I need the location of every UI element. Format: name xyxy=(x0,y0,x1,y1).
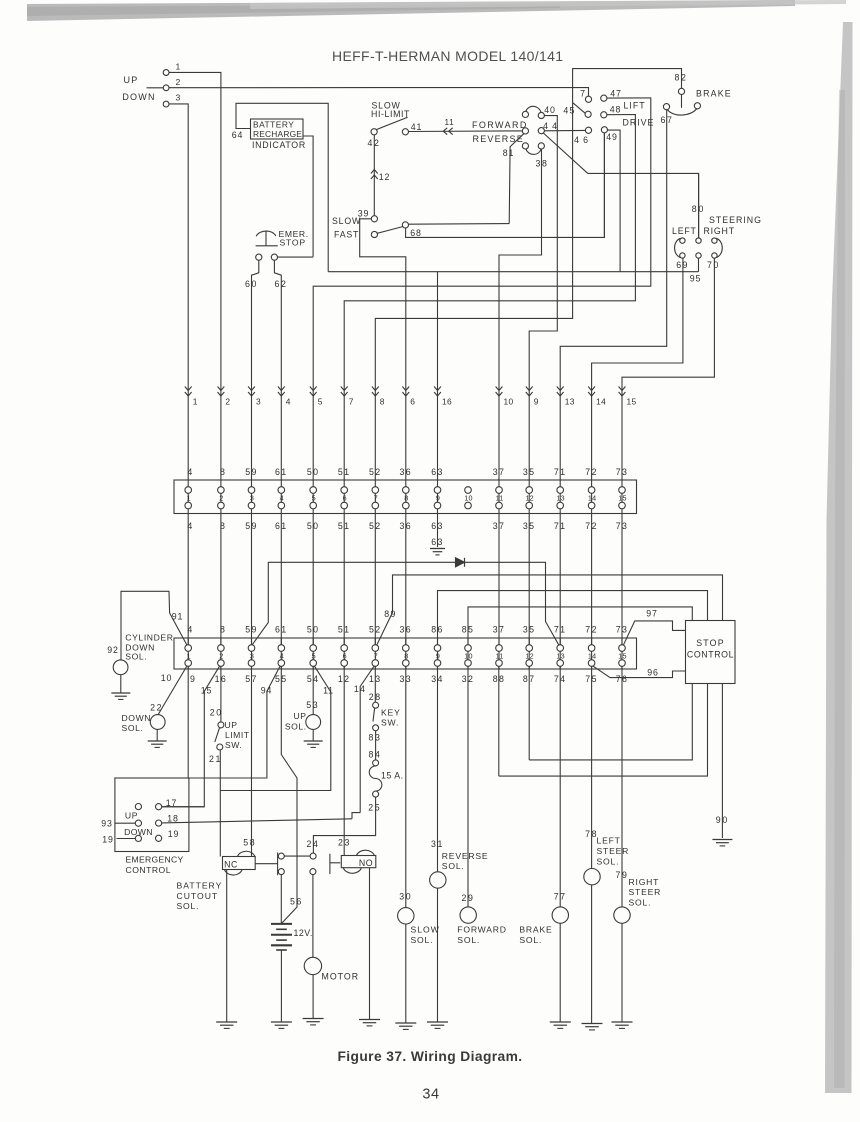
wire left pair to battery xyxy=(280,875,282,924)
svg-text:22: 22 xyxy=(150,703,163,713)
ground below up sol xyxy=(312,729,314,740)
arrow wire 15 into strip1 col15 xyxy=(619,387,626,391)
wire 18/93 row xyxy=(115,822,135,824)
svg-text:13: 13 xyxy=(565,397,575,407)
TB2 pin 7 terminals xyxy=(374,638,376,669)
steering right arc xyxy=(716,238,722,257)
svg-text:SOL.: SOL. xyxy=(629,898,652,908)
svg-text:18: 18 xyxy=(167,814,178,824)
TB2 pin 6 terminals xyxy=(343,638,345,669)
svg-text:71: 71 xyxy=(554,625,567,635)
svg-text:70: 70 xyxy=(707,260,720,270)
TB1 pin 13 terminals xyxy=(559,480,561,514)
wire from stop control to TB2 pin12 / 87 xyxy=(529,684,692,760)
terminal fast xyxy=(371,231,377,237)
left steer solenoid xyxy=(584,869,600,885)
wire from 68 to node 81 xyxy=(409,223,510,226)
svg-text:REVERSE: REVERSE xyxy=(442,851,489,861)
svg-text:90: 90 xyxy=(716,815,729,825)
svg-text:UP: UP xyxy=(124,75,139,85)
svg-text:56: 56 xyxy=(290,897,303,907)
svg-text:10: 10 xyxy=(504,397,514,407)
svg-text:10: 10 xyxy=(464,494,472,503)
TB1 pin 11 terminals xyxy=(498,480,500,514)
terminal 60 xyxy=(256,254,262,260)
battery 12V xyxy=(271,923,292,925)
wire 14 diagonal from TB2 pin7 xyxy=(360,666,374,812)
switch blade 81 and wire to node 68 xyxy=(509,133,524,223)
wire 2 from terminal 2 to switch 7 xyxy=(147,87,164,89)
ground below slow sol xyxy=(395,1022,416,1024)
svg-text:83: 83 xyxy=(369,732,382,742)
wire 80 vertical xyxy=(698,173,700,237)
svg-text:41: 41 xyxy=(411,122,422,132)
terminals 18 row xyxy=(135,820,141,826)
wire 49 to node 68 xyxy=(603,133,605,238)
svg-text:FORWARD: FORWARD xyxy=(472,120,528,130)
contact 24 left pair xyxy=(278,853,284,859)
terminal 81 xyxy=(522,143,528,149)
emergency stop symbol xyxy=(256,231,276,236)
svg-text:7: 7 xyxy=(374,651,378,660)
svg-text:2: 2 xyxy=(219,651,223,660)
TB2 pin 9 terminals xyxy=(437,638,439,669)
TB1 pin 7 terminals xyxy=(374,480,376,514)
svg-text:73: 73 xyxy=(616,625,629,635)
svg-text:15: 15 xyxy=(201,685,212,695)
TB2 pin 10 terminals xyxy=(467,638,469,669)
svg-text:64: 64 xyxy=(232,130,243,140)
steering terminals top row xyxy=(680,238,685,243)
svg-text:5: 5 xyxy=(312,494,316,503)
svg-text:15: 15 xyxy=(627,397,637,407)
svg-text:58: 58 xyxy=(243,837,256,847)
svg-text:28: 28 xyxy=(369,692,382,702)
terminal 3 xyxy=(163,101,169,107)
wire 62 to indicator node xyxy=(278,256,314,258)
svg-text:4: 4 xyxy=(187,625,193,635)
wire 94 from TB2 pin4 to emergency control xyxy=(189,666,280,778)
terminal 41 xyxy=(402,129,408,135)
terminal 40 xyxy=(538,112,544,118)
terminal 11 common xyxy=(522,128,528,134)
svg-text:MOTOR: MOTOR xyxy=(322,972,360,982)
wire 44 to 46 xyxy=(544,129,585,131)
svg-text:25: 25 xyxy=(368,803,381,813)
wire from TB1 pin 7 to TB2 pin 7 xyxy=(374,514,376,645)
wire 33 from TB2 pin8 to slow sol xyxy=(405,666,407,1022)
svg-text:SOL.: SOL. xyxy=(442,861,465,871)
svg-text:DOWN: DOWN xyxy=(122,92,155,102)
svg-text:1: 1 xyxy=(187,651,191,660)
svg-text:14: 14 xyxy=(354,684,367,694)
svg-text:5: 5 xyxy=(312,651,316,660)
svg-text:15: 15 xyxy=(618,494,626,503)
svg-text:5: 5 xyxy=(318,397,323,407)
svg-text:DRIVE: DRIVE xyxy=(623,118,655,128)
svg-text:77: 77 xyxy=(554,892,567,902)
svg-text:SLOW: SLOW xyxy=(411,924,440,934)
wire from TB1 pin 2 to TB2 pin 2 xyxy=(220,514,222,645)
svg-text:LEFT: LEFT xyxy=(597,836,621,846)
svg-text:STEER: STEER xyxy=(629,887,662,897)
ground below left steer sol xyxy=(582,1023,603,1025)
wire 57 from TB2 pin3 to NC relay coil xyxy=(251,666,253,856)
ground 90 xyxy=(712,839,732,841)
svg-text:37: 37 xyxy=(493,625,506,635)
contact bar 24 left xyxy=(277,853,279,876)
arrow wire 13 into strip1 col13 xyxy=(557,387,564,391)
svg-text:SLOW: SLOW xyxy=(332,216,361,226)
svg-text:STEERING: STEERING xyxy=(709,215,762,225)
wire 85 from TB2 pin10 to stop control xyxy=(468,607,692,645)
contact 24 right pair xyxy=(310,853,316,859)
svg-text:9: 9 xyxy=(436,494,440,503)
svg-text:34: 34 xyxy=(422,1087,439,1103)
svg-text:2: 2 xyxy=(225,397,230,407)
svg-text:SOL.: SOL. xyxy=(122,723,144,733)
svg-text:13: 13 xyxy=(556,494,564,503)
wire 76 from TB2 pin15 to right steer sol xyxy=(621,666,623,1021)
TB2 pin 8 terminals xyxy=(405,638,407,669)
svg-text:50: 50 xyxy=(307,625,320,635)
stem from 82 xyxy=(681,94,683,107)
wire 45 pivot to strip1 col7 xyxy=(375,103,572,480)
svg-text:NC: NC xyxy=(224,859,238,869)
up limit switch xyxy=(218,722,224,728)
arrow wire 1 into strip1 col1 xyxy=(185,387,192,391)
svg-text:61: 61 xyxy=(275,467,288,477)
TB1 pin 14 terminals xyxy=(591,480,593,514)
slow solenoid xyxy=(398,908,414,924)
svg-text:53: 53 xyxy=(306,700,319,710)
svg-text:13: 13 xyxy=(556,651,564,660)
arrow wire 10 into strip1 col11 xyxy=(496,387,503,391)
wire 95 stub to node 63 xyxy=(698,258,700,272)
svg-text:19: 19 xyxy=(102,835,113,845)
svg-text:71: 71 xyxy=(554,467,567,477)
svg-text:51: 51 xyxy=(338,467,351,477)
svg-text:LEFT: LEFT xyxy=(672,226,697,236)
wire from TB1 pin 6 to TB2 pin 6 xyxy=(343,514,345,645)
svg-text:3: 3 xyxy=(256,397,261,407)
svg-text:1: 1 xyxy=(176,62,182,72)
svg-text:INDICATOR: INDICATOR xyxy=(252,140,306,150)
terminal 47 xyxy=(601,95,607,101)
right steer solenoid xyxy=(614,907,630,923)
terminal 42 xyxy=(371,129,377,135)
svg-text:4 4: 4 4 xyxy=(543,121,558,131)
wire from 39 to strip1 col8 xyxy=(360,219,406,480)
arrow wire 6 into strip1 col8 xyxy=(402,387,409,391)
wire NO to ground xyxy=(369,868,371,1019)
wire 18 jog to wire 14 xyxy=(352,813,360,819)
svg-text:61: 61 xyxy=(275,625,288,635)
svg-text:SOL.: SOL. xyxy=(519,935,542,945)
terminal 48 xyxy=(601,112,607,118)
ground below NC xyxy=(216,1021,237,1023)
TB1 pin 4 terminals xyxy=(280,480,282,514)
forward solenoid xyxy=(460,907,476,923)
ground below down sol xyxy=(156,729,158,740)
svg-text:SOL.: SOL. xyxy=(177,901,200,911)
wire 1 from terminal 1 to strip1 col2 xyxy=(169,72,221,480)
terminal 38 xyxy=(538,143,544,149)
svg-text:7: 7 xyxy=(580,88,586,98)
arc 40-45 top xyxy=(526,106,541,112)
svg-text:3: 3 xyxy=(176,93,182,103)
wire 55 from TB2 pin4 to battery xyxy=(281,666,297,923)
svg-text:82: 82 xyxy=(675,73,688,83)
svg-text:11: 11 xyxy=(444,118,454,127)
svg-text:94: 94 xyxy=(261,685,272,695)
down solenoid xyxy=(150,715,165,730)
wire 10 diagonal to down sol xyxy=(158,666,187,715)
terminal 39 xyxy=(371,216,377,222)
svg-text:SOL.: SOL. xyxy=(125,652,147,662)
svg-text:BRAKE: BRAKE xyxy=(696,88,732,98)
svg-text:8: 8 xyxy=(404,494,408,503)
wire battery to ground xyxy=(280,950,282,1022)
TB1 pin 12 terminals xyxy=(528,480,530,514)
svg-text:SOL.: SOL. xyxy=(457,935,480,945)
svg-text:23: 23 xyxy=(338,837,351,847)
terminal strip TB1 xyxy=(174,480,637,514)
svg-text:85: 85 xyxy=(462,625,475,635)
TB2 pin 4 terminals xyxy=(280,638,282,669)
chevron arrow 12 xyxy=(371,170,378,174)
wire from TB1 pin 4 to TB2 pin 4 xyxy=(280,514,282,645)
svg-text:93: 93 xyxy=(101,818,112,828)
up solenoid xyxy=(306,715,321,730)
svg-text:12: 12 xyxy=(525,651,533,660)
svg-text:1: 1 xyxy=(187,494,191,503)
svg-text:52: 52 xyxy=(369,467,382,477)
svg-text:52: 52 xyxy=(369,625,382,635)
wire 16 from TB2 pin2 to up limit switch xyxy=(220,666,222,721)
wire 3 from terminal 3 to strip1 col1 xyxy=(169,104,188,480)
svg-text:10: 10 xyxy=(161,673,172,683)
NO relay fixed contact bracket xyxy=(329,854,331,874)
svg-text:81: 81 xyxy=(503,148,514,158)
wire from TB1 pin 14 to TB2 pin 14 xyxy=(591,514,593,645)
TB1 pin 2 terminals xyxy=(220,480,222,514)
TB2 pin 13 terminals xyxy=(559,638,561,669)
svg-text:86: 86 xyxy=(431,625,444,635)
terminal 68 xyxy=(402,222,408,228)
svg-text:24: 24 xyxy=(307,839,320,849)
wire with diode from TB2 pin3 to TB2 pin13 xyxy=(252,562,559,645)
cylinder down solenoid xyxy=(113,660,128,675)
stop control box xyxy=(686,621,736,684)
wire 47 to strip1 col5 xyxy=(313,98,651,480)
wire 74 from TB2 pin13 to brake sol xyxy=(559,666,561,1021)
svg-text:40: 40 xyxy=(544,105,555,115)
wire from TB1 pin 11 to TB2 pin 11 xyxy=(498,514,500,645)
svg-text:3: 3 xyxy=(250,651,254,660)
svg-text:HEFF-T-HERMAN MODEL 140/141: HEFF-T-HERMAN MODEL 140/141 xyxy=(332,48,563,64)
svg-text:STOP: STOP xyxy=(696,638,725,648)
svg-text:29: 29 xyxy=(462,893,475,903)
svg-text:RIGHT: RIGHT xyxy=(704,226,735,236)
arrow wire 4 into strip1 col4 xyxy=(278,387,285,391)
terminal strip TB2 xyxy=(174,638,637,669)
wire motor to ground xyxy=(312,975,314,1018)
svg-text:7: 7 xyxy=(374,494,378,503)
svg-text:15 A.: 15 A. xyxy=(381,771,404,781)
wire 25 to contact 24 xyxy=(313,797,375,853)
svg-text:1: 1 xyxy=(193,397,198,407)
terminal 7 xyxy=(585,96,591,102)
arrow wire 16 into strip1 col9 xyxy=(434,387,441,391)
TB2 pin 3 terminals xyxy=(251,638,253,669)
svg-text:38: 38 xyxy=(536,159,549,169)
svg-text:BATTERY: BATTERY xyxy=(177,881,223,891)
terminal 82 xyxy=(678,88,684,94)
svg-text:51: 51 xyxy=(338,625,351,635)
wire 88 below TB2 pin11 xyxy=(498,666,500,776)
wire from TB1 pin 13 to TB2 pin 13 xyxy=(559,514,561,645)
svg-text:STEER: STEER xyxy=(597,846,630,856)
diode xyxy=(456,558,465,567)
reverse solenoid xyxy=(430,872,446,888)
terminals 17 row xyxy=(135,804,141,810)
key switch xyxy=(373,702,379,708)
ground below cylinder down sol xyxy=(120,675,122,693)
svg-text:80: 80 xyxy=(692,204,705,214)
TB1 pin 9 terminals xyxy=(437,480,439,514)
fuse 15A xyxy=(373,760,379,766)
wire 48 to strip1 col6 xyxy=(344,115,635,481)
terminal 44 xyxy=(538,128,544,134)
scanner top edge band xyxy=(27,0,795,21)
svg-text:37: 37 xyxy=(493,467,506,477)
wire 9 from TB2 pin1 to emergency control xyxy=(187,666,189,778)
wire 21 down to NC relay xyxy=(219,750,221,857)
svg-text:STOP: STOP xyxy=(280,237,306,247)
wire 70 to strip1 col15 xyxy=(622,258,714,480)
svg-text:8: 8 xyxy=(404,651,408,660)
wire from 68 to 49 xyxy=(406,133,605,238)
svg-text:4: 4 xyxy=(280,494,284,503)
TB2 pin 15 terminals xyxy=(621,638,623,669)
svg-text:47: 47 xyxy=(610,88,621,98)
svg-text:UP: UP xyxy=(125,810,138,820)
svg-text:12V.: 12V. xyxy=(294,928,313,938)
svg-text:17: 17 xyxy=(166,798,177,808)
svg-text:68: 68 xyxy=(410,228,421,238)
svg-text:CYLINDER: CYLINDER xyxy=(125,633,173,643)
steering left arc xyxy=(675,238,681,257)
svg-text:49: 49 xyxy=(606,132,617,142)
svg-text:48: 48 xyxy=(610,105,621,115)
svg-text:12: 12 xyxy=(379,172,390,182)
TB2 pin 2 terminals xyxy=(220,638,222,669)
wire from TB1 pin 8 to TB2 pin 8 xyxy=(405,514,407,645)
svg-text:45: 45 xyxy=(563,105,575,115)
ground below battery xyxy=(271,1021,292,1023)
svg-text:30: 30 xyxy=(399,892,412,902)
arrow wire 9 into strip1 col12 xyxy=(526,387,533,391)
svg-text:SOL.: SOL. xyxy=(411,935,434,945)
svg-text:92: 92 xyxy=(107,645,118,655)
wire 63 ground stub below TB1 xyxy=(437,514,439,548)
terminal 49 xyxy=(601,127,607,133)
wire 15 from TB2 pin2 to emergency control 17 xyxy=(162,666,220,807)
TB2 pin 12 terminals xyxy=(528,638,530,669)
ground below right steer sol xyxy=(612,1021,633,1023)
wire 19 row xyxy=(117,838,136,840)
svg-text:11: 11 xyxy=(496,494,504,503)
wire 75 from TB2 pin14 to left steer sol xyxy=(591,666,593,1023)
svg-text:72: 72 xyxy=(585,625,598,635)
svg-text:11: 11 xyxy=(323,685,334,695)
TB1 pin 3 terminals xyxy=(251,480,253,514)
TB1 pin 15 terminals xyxy=(621,480,623,514)
svg-text:63: 63 xyxy=(431,467,444,477)
wire from stop control to TB2 pin11 / 88 xyxy=(499,684,708,777)
TB1 pin 1 terminals xyxy=(187,480,189,514)
svg-text:59: 59 xyxy=(245,467,258,477)
svg-text:8: 8 xyxy=(380,397,385,407)
svg-text:59: 59 xyxy=(245,625,258,635)
svg-text:73: 73 xyxy=(616,467,629,477)
TB2 pin 11 terminals xyxy=(498,638,500,669)
wire 87 below TB2 pin12 xyxy=(528,666,530,760)
svg-text:UP: UP xyxy=(294,711,307,721)
NO coil arcs xyxy=(357,850,375,856)
wire 12 from 42 to slow/fast switch xyxy=(373,135,375,216)
svg-text:14: 14 xyxy=(588,651,596,660)
svg-text:8: 8 xyxy=(220,625,226,635)
chevron arrow 11 xyxy=(443,128,447,135)
arc 81-38 bottom xyxy=(526,149,541,155)
terminal 46 xyxy=(585,127,591,133)
svg-text:FAST: FAST xyxy=(334,230,359,240)
svg-text:RECHARGE: RECHARGE xyxy=(253,129,302,139)
svg-text:SOL.: SOL. xyxy=(285,722,307,732)
wire 67 to strip1 col13 xyxy=(560,110,667,480)
svg-text:79: 79 xyxy=(616,870,629,880)
wire from TB1 pin 15 to TB2 pin 15 xyxy=(621,514,623,645)
svg-text:95: 95 xyxy=(690,274,701,284)
node wire 63/69 horizontal xyxy=(328,271,698,273)
TB1 pin 6 terminals xyxy=(343,480,345,514)
svg-text:DOWN: DOWN xyxy=(122,713,152,723)
svg-text:16: 16 xyxy=(442,397,452,407)
svg-text:CONTROL: CONTROL xyxy=(126,865,172,875)
svg-text:97: 97 xyxy=(646,609,657,619)
svg-text:NO: NO xyxy=(359,858,373,868)
ground below motor xyxy=(303,1018,324,1020)
wire 60 to strip1 col3 xyxy=(252,260,259,480)
wire 21 branch to wire 11 xyxy=(220,666,330,790)
terminal top-left xyxy=(522,111,528,117)
scanner right edge band xyxy=(825,22,853,1093)
svg-text:35: 35 xyxy=(523,625,536,635)
NO relay coil box xyxy=(341,856,376,868)
svg-text:96: 96 xyxy=(647,667,658,677)
svg-text:9: 9 xyxy=(190,674,196,684)
svg-text:6: 6 xyxy=(343,651,347,660)
wire 17 row xyxy=(162,806,205,808)
svg-text:4: 4 xyxy=(187,467,193,477)
steering terminals bottom row xyxy=(680,253,685,258)
TB2 pin 14 terminals xyxy=(591,638,593,669)
ground below NO xyxy=(359,1019,380,1021)
wire 86 from TB2 pin9 to stop control xyxy=(438,591,708,645)
wire 12/23 from TB2 pin6 to NO relay xyxy=(343,666,345,855)
